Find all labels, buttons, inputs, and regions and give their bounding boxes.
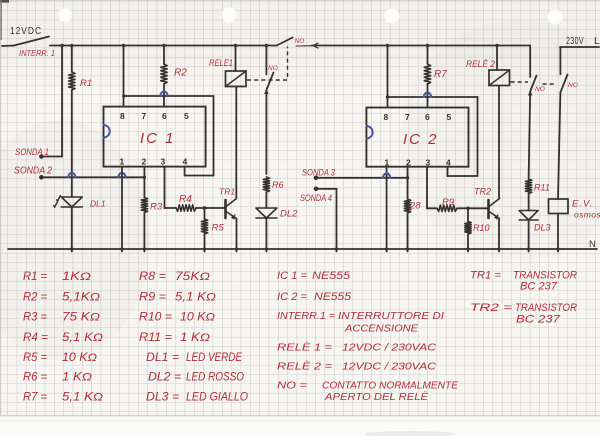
svg-text:5,1 KΩ: 5,1 KΩ bbox=[62, 332, 103, 344]
svg-text:APERTO DEL RELÈ: APERTO DEL RELÈ bbox=[324, 390, 428, 403]
svg-text:BC 237: BC 237 bbox=[520, 281, 558, 293]
svg-text:DL3 =: DL3 = bbox=[146, 392, 179, 404]
svg-text:R11 =: R11 = bbox=[139, 332, 172, 344]
svg-text:R7: R7 bbox=[434, 69, 447, 80]
svg-text:DL1: DL1 bbox=[90, 199, 106, 209]
svg-text:R4 =: R4 = bbox=[23, 332, 48, 344]
svg-text:DL3: DL3 bbox=[534, 223, 551, 233]
svg-text:R6 =: R6 = bbox=[23, 372, 47, 384]
svg-text:RELE1: RELE1 bbox=[209, 58, 233, 69]
svg-text:RELÈ 1 =: RELÈ 1 = bbox=[277, 341, 332, 354]
svg-text:R8 =: R8 = bbox=[139, 271, 166, 283]
svg-text:SONDA 4: SONDA 4 bbox=[300, 193, 332, 203]
svg-text:SONDA 1: SONDA 1 bbox=[15, 147, 49, 157]
svg-text:E.V.: E.V. bbox=[572, 199, 593, 210]
svg-text:INTERR. 1: INTERR. 1 bbox=[19, 48, 55, 58]
svg-text:8: 8 bbox=[384, 112, 389, 122]
svg-text:TR1 =: TR1 = bbox=[470, 270, 502, 282]
svg-text:R2 =: R2 = bbox=[23, 292, 47, 304]
svg-text:DL1 =: DL1 = bbox=[146, 352, 179, 364]
svg-text:TR2 =: TR2 = bbox=[470, 302, 513, 314]
svg-text:10 KΩ: 10 KΩ bbox=[180, 312, 215, 324]
svg-text:10 KΩ: 10 KΩ bbox=[62, 352, 97, 364]
svg-text:1: 1 bbox=[120, 157, 125, 167]
svg-text:5,1 KΩ: 5,1 KΩ bbox=[175, 292, 216, 304]
svg-text:12VDC / 230VAC: 12VDC / 230VAC bbox=[342, 342, 436, 354]
svg-text:R6: R6 bbox=[272, 180, 284, 190]
svg-text:R2: R2 bbox=[174, 68, 187, 79]
svg-text:12VDC / 230VAC: 12VDC / 230VAC bbox=[342, 361, 436, 373]
svg-text:N: N bbox=[589, 239, 596, 250]
svg-text:DL2 =: DL2 = bbox=[148, 372, 181, 384]
svg-text:28: 28 bbox=[409, 201, 421, 212]
svg-text:3: 3 bbox=[426, 158, 431, 168]
svg-text:R3: R3 bbox=[150, 202, 163, 213]
svg-text:6: 6 bbox=[162, 111, 167, 121]
svg-text:BC 237: BC 237 bbox=[516, 314, 561, 326]
svg-text:6: 6 bbox=[425, 112, 430, 122]
svg-text:R7 =: R7 = bbox=[23, 392, 47, 404]
svg-text:NO: NO bbox=[568, 82, 578, 89]
svg-text:INTERRUTTORE DI: INTERRUTTORE DI bbox=[338, 310, 444, 322]
svg-text:R5 =: R5 = bbox=[23, 352, 47, 364]
svg-text:R9: R9 bbox=[442, 197, 455, 208]
svg-text:NE555: NE555 bbox=[312, 270, 351, 282]
svg-text:75KΩ: 75KΩ bbox=[175, 271, 210, 283]
svg-text:L: L bbox=[594, 35, 600, 47]
svg-text:8: 8 bbox=[120, 111, 125, 121]
svg-text:TR1: TR1 bbox=[219, 187, 235, 197]
svg-text:R10: R10 bbox=[473, 223, 490, 233]
svg-text:LED ROSSO: LED ROSSO bbox=[186, 372, 244, 384]
svg-text:R10 =: R10 = bbox=[139, 312, 172, 324]
svg-text:IC 2 =: IC 2 = bbox=[277, 291, 308, 303]
svg-text:R3 =: R3 = bbox=[23, 312, 47, 324]
svg-text:7: 7 bbox=[405, 112, 410, 122]
svg-text:R11: R11 bbox=[534, 183, 550, 193]
svg-text:3: 3 bbox=[161, 157, 166, 167]
svg-text:75 KΩ: 75 KΩ bbox=[62, 312, 100, 324]
svg-text:RELÈ 2: RELÈ 2 bbox=[466, 59, 496, 70]
svg-text:IC 1: IC 1 bbox=[140, 130, 176, 147]
svg-text:LED VERDE: LED VERDE bbox=[186, 352, 242, 364]
svg-text:1KΩ: 1KΩ bbox=[62, 271, 91, 283]
svg-text:osmosi: osmosi bbox=[574, 210, 600, 220]
svg-text:5: 5 bbox=[447, 112, 452, 122]
svg-text:R9 =: R9 = bbox=[139, 292, 166, 304]
svg-text:R4: R4 bbox=[179, 194, 192, 205]
svg-text:LED GIALLO: LED GIALLO bbox=[186, 392, 248, 404]
svg-text:4: 4 bbox=[446, 158, 451, 168]
svg-text:R5: R5 bbox=[212, 223, 225, 234]
svg-text:RELÈ 2 =: RELÈ 2 = bbox=[277, 360, 332, 373]
svg-text:NO: NO bbox=[268, 65, 278, 72]
svg-text:INTERR.1 =: INTERR.1 = bbox=[277, 310, 335, 322]
svg-text:TRANSISTOR: TRANSISTOR bbox=[515, 302, 577, 314]
svg-text:IC 2: IC 2 bbox=[403, 131, 439, 148]
svg-text:7: 7 bbox=[142, 111, 147, 121]
svg-text:230V: 230V bbox=[566, 35, 584, 47]
svg-text:R1 =: R1 = bbox=[23, 271, 47, 283]
svg-text:NE555: NE555 bbox=[314, 291, 352, 303]
svg-text:DL2: DL2 bbox=[280, 209, 298, 220]
svg-text:1 KΩ: 1 KΩ bbox=[180, 332, 210, 344]
svg-text:CONTATTO NORMALMENTE: CONTATTO NORMALMENTE bbox=[322, 381, 458, 392]
svg-text:2: 2 bbox=[406, 158, 411, 168]
svg-text:4: 4 bbox=[183, 157, 188, 167]
svg-text:2: 2 bbox=[142, 157, 147, 167]
svg-text:5,1 KΩ: 5,1 KΩ bbox=[62, 392, 103, 404]
svg-text:TR2: TR2 bbox=[474, 187, 491, 197]
svg-text:5: 5 bbox=[184, 111, 189, 121]
svg-text:SONDA 3: SONDA 3 bbox=[302, 168, 335, 178]
svg-text:1 KΩ: 1 KΩ bbox=[62, 372, 92, 384]
svg-text:12VDC: 12VDC bbox=[10, 25, 42, 37]
svg-text:NO: NO bbox=[295, 38, 305, 45]
svg-text:5,1KΩ: 5,1KΩ bbox=[62, 292, 100, 304]
svg-text:NO =: NO = bbox=[277, 380, 307, 392]
svg-text:SONDA 2: SONDA 2 bbox=[14, 166, 52, 177]
svg-text:ACCENSIONE: ACCENSIONE bbox=[344, 323, 419, 335]
svg-text:NO: NO bbox=[535, 86, 545, 93]
svg-text:IC 1 =: IC 1 = bbox=[277, 270, 308, 282]
svg-text:R1: R1 bbox=[80, 78, 92, 89]
